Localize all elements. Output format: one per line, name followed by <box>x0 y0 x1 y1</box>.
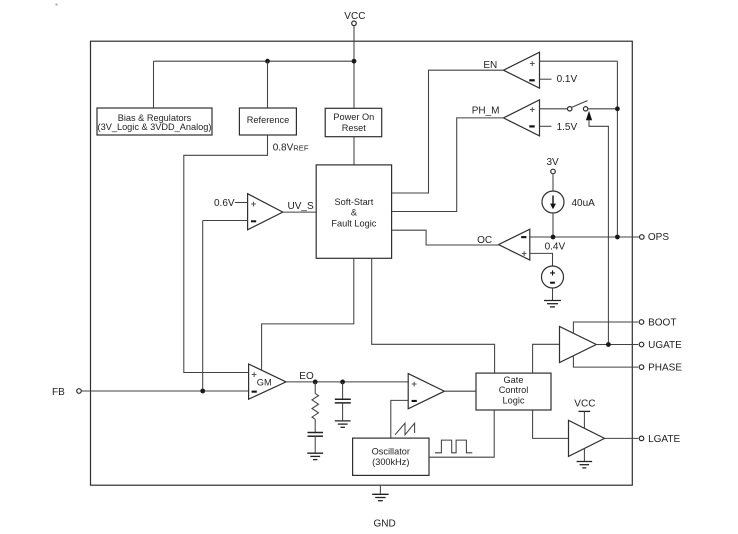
arrow UGATE sense into switch <box>586 111 592 120</box>
terminal LGATE <box>639 436 644 441</box>
current source 40uA <box>542 191 564 213</box>
block Reference <box>239 108 296 135</box>
svg-text:PH_M: PH_M <box>472 106 500 117</box>
svg-text:PHASE: PHASE <box>648 363 682 374</box>
wire Soft-Start down to gate control line <box>372 258 495 373</box>
comparator OC <box>499 229 530 260</box>
svg-text:OPS: OPS <box>648 232 669 243</box>
svg-text:1.5V: 1.5V <box>557 122 578 133</box>
wire EN - input stub <box>540 78 552 80</box>
wire EN output left and down into Soft-Start <box>392 70 504 193</box>
comparator UV (0.6V vs FB) <box>248 194 283 230</box>
wire GCL to LGATE driver input <box>533 410 569 438</box>
switch contact right <box>583 107 587 111</box>
error amplifier GM <box>249 364 286 399</box>
wire PWM output to Gate Control Logic <box>444 390 476 392</box>
svg-text:(3V_Logic & 3VDD_Analog): (3V_Logic & 3VDD_Analog) <box>98 122 212 132</box>
svg-text:+: + <box>530 104 536 115</box>
terminal UGATE <box>639 342 644 347</box>
node junction bus/Reference <box>265 59 270 64</box>
ground GND stub <box>379 485 381 494</box>
square wave symbol <box>435 440 472 453</box>
svg-text:OC: OC <box>477 235 492 246</box>
terminal PHASE <box>639 365 644 370</box>
wire 3V to current source <box>552 175 554 192</box>
comparator EN <box>504 52 540 88</box>
svg-text:+: + <box>530 59 536 70</box>
svg-text:BOOT: BOOT <box>648 317 676 328</box>
svg-text:0.6V: 0.6V <box>214 198 235 209</box>
outer IC boundary box <box>91 41 633 485</box>
wire PH_M + input to switch <box>540 108 568 110</box>
svg-text:LGATE: LGATE <box>648 434 680 445</box>
stray speck <box>56 4 58 6</box>
wire top bus <box>154 60 355 62</box>
capacitor C2 on EO <box>335 382 351 421</box>
svg-text:+: + <box>411 379 417 390</box>
svg-text:0.8VREF: 0.8VREF <box>273 142 309 153</box>
wire Soft-Start to GM top (soft-start clamp) <box>262 258 354 370</box>
wire BOOT to driver top <box>573 322 638 334</box>
svg-text:Reset: Reset <box>342 123 366 133</box>
ground below 0.4V source <box>544 301 561 307</box>
svg-text:0.4V: 0.4V <box>545 241 566 252</box>
wire PHASE to driver bottom <box>573 356 638 367</box>
svg-text:EO: EO <box>299 371 314 382</box>
wire GCL to UGATE driver input <box>533 344 560 373</box>
terminal BOOT <box>639 320 644 325</box>
wire UV - input from FB riser <box>203 220 248 222</box>
svg-text:(300kHz): (300kHz) <box>372 457 409 467</box>
block Soft-Start & Fault Logic U_SS <box>316 165 391 258</box>
svg-text:Power On: Power On <box>333 112 374 122</box>
voltage source 0.4V <box>542 266 564 288</box>
resistor compensation R1 <box>312 382 319 432</box>
wire arrow shaft to UGATE rail <box>589 120 608 345</box>
svg-text:40uA: 40uA <box>572 198 596 209</box>
node junction UGATE/rail <box>606 342 611 347</box>
svg-text:&: & <box>351 208 357 218</box>
svg-text:Fault Logic: Fault Logic <box>331 218 376 228</box>
ground below C2 <box>335 421 351 427</box>
wire UGATE output <box>596 344 638 346</box>
wire VCC down to bus and POR <box>353 26 355 109</box>
block Oscillator <box>353 438 429 475</box>
svg-text:+: + <box>521 249 527 260</box>
ground below LGATE driver <box>577 462 593 468</box>
wire FB to GM - input <box>81 390 248 392</box>
node junction switch/rail <box>615 106 620 111</box>
wire UV_S output to Soft-Start <box>283 211 316 213</box>
svg-text:+: + <box>251 199 257 210</box>
wire LGATE output <box>605 437 639 439</box>
switch contact left <box>568 107 572 111</box>
svg-text:UV_S: UV_S <box>288 201 314 212</box>
wire EN + input to right rail <box>540 60 618 62</box>
svg-text:VCC: VCC <box>574 398 595 409</box>
wire OPS line <box>530 236 639 238</box>
svg-text:GM: GM <box>257 378 272 388</box>
wire POR to Soft-Start box <box>353 137 355 165</box>
block Gate Control Logic <box>476 373 551 410</box>
wire switch to rail <box>588 108 618 110</box>
wire oscillator output to Gate Control Logic <box>429 410 494 457</box>
svg-text:Logic: Logic <box>503 395 525 405</box>
wire bus to Bias box <box>153 61 155 108</box>
svg-text:FB: FB <box>52 387 65 398</box>
wire OC output to Soft-Start <box>392 230 499 245</box>
svg-text:VCC: VCC <box>344 11 365 22</box>
node junction current source/OPS <box>551 235 556 240</box>
svg-text:Oscillator: Oscillator <box>372 447 410 457</box>
wire 0.6V to UV + input <box>235 202 248 204</box>
wire rail EN/OPS <box>616 61 618 237</box>
node junction EO/C2 <box>340 380 345 385</box>
svg-text:Gate: Gate <box>504 375 524 385</box>
wire PH_M - input stub <box>540 125 552 127</box>
svg-text:Reference: Reference <box>247 115 289 125</box>
block Power On Reset <box>325 108 382 136</box>
wire bus to Reference box <box>267 61 269 108</box>
sawtooth waveform symbol <box>395 423 415 435</box>
comparator PH_M <box>504 100 540 136</box>
driver LGATE <box>569 420 605 456</box>
node junction rail/OPS <box>615 235 620 240</box>
svg-text:0.1V: 0.1V <box>557 74 578 85</box>
comparator PWM <box>408 374 444 409</box>
wire OC + input to 0.4V source <box>530 253 553 266</box>
wire 0.8VREF: Reference down, left, down to GM + input <box>184 135 268 373</box>
wire EO: GM output to PWM + input <box>286 381 408 383</box>
wire FB riser up to UV - <box>202 221 204 392</box>
svg-text:EN: EN <box>483 60 497 71</box>
svg-text:3V: 3V <box>547 157 560 168</box>
node junction EO/RC <box>313 380 318 385</box>
wire 0.4V source to ground <box>552 288 554 300</box>
ground symbol GND <box>372 494 388 500</box>
wire current source to OPS line <box>552 213 554 237</box>
node junction FB/UV riser <box>200 389 205 394</box>
wire LGATE driver ground <box>583 448 585 461</box>
svg-text:Soft-Start: Soft-Start <box>334 197 373 207</box>
block Bias & Regulators <box>97 108 212 135</box>
ground below C1 <box>307 453 323 459</box>
svg-text:+: + <box>550 268 556 279</box>
svg-text:UGATE: UGATE <box>648 340 682 351</box>
driver UGATE <box>560 327 597 363</box>
terminal OPS <box>640 235 645 240</box>
svg-text:GND: GND <box>374 519 396 530</box>
wire PWM - input from oscillator <box>391 400 408 438</box>
switch lever <box>572 101 588 108</box>
wire PH_M output left and down into Soft-Start <box>392 118 504 212</box>
node junction bus/VCC <box>352 59 357 64</box>
svg-text:Control: Control <box>499 385 529 395</box>
capacitor compensation C1 <box>308 433 324 453</box>
